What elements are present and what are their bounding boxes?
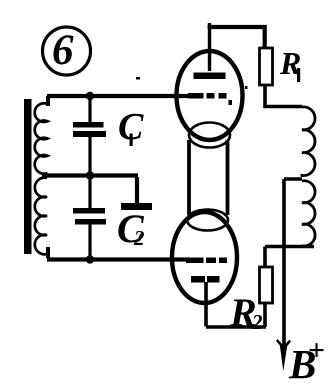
svg-text:2: 2 bbox=[251, 310, 263, 334]
svg-text:2: 2 bbox=[133, 226, 145, 250]
svg-text:+: + bbox=[308, 334, 325, 367]
svg-text:6: 6 bbox=[52, 27, 74, 74]
